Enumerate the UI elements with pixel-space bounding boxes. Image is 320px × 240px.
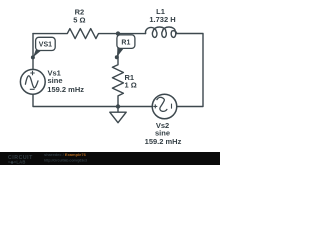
svg-text:VS1: VS1 <box>39 41 52 48</box>
svg-text:http://circuitlab.com/g63e3: http://circuitlab.com/g63e3 <box>44 158 87 162</box>
svg-text:5 Ω: 5 Ω <box>73 15 85 24</box>
svg-text:159.2 mHz: 159.2 mHz <box>145 137 182 146</box>
svg-text:R1: R1 <box>121 40 130 47</box>
svg-text:1.732 H: 1.732 H <box>149 15 175 24</box>
svg-text:sharedec / Example76: sharedec / Example76 <box>44 152 87 157</box>
svg-text:1 Ω: 1 Ω <box>125 81 137 90</box>
svg-text:≈◆≈LAB: ≈◆≈LAB <box>8 160 26 165</box>
svg-text:sine: sine <box>48 76 63 85</box>
svg-text:159.2 mHz: 159.2 mHz <box>47 85 84 94</box>
